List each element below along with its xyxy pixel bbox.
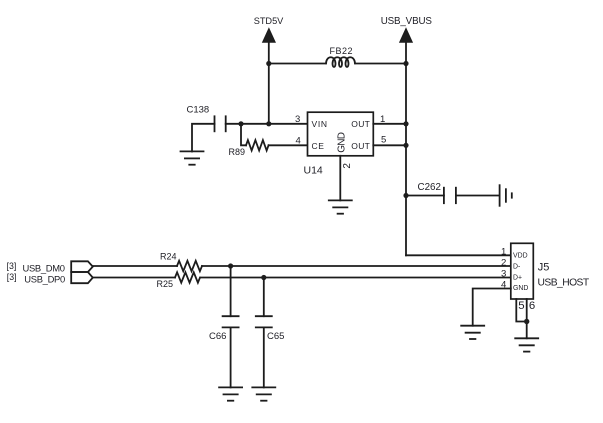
capacitor C138: [215, 116, 226, 131]
capacitor C66: [223, 316, 239, 327]
power symbol STD5V: [263, 29, 276, 64]
wire C138 left lead: [192, 124, 215, 152]
ground under C66: [219, 387, 242, 400]
wire USB_DP0 to R25: [93, 277, 175, 279]
svg-text:CE: CE: [312, 141, 325, 151]
wire C65 to ground: [263, 327, 265, 387]
junction VBUS/C262: [403, 193, 408, 198]
wire C262 to ground: [456, 195, 500, 197]
svg-text:3: 3: [295, 114, 300, 125]
off-page connector USB_DM0: [71, 261, 93, 272]
svg-text:2: 2: [501, 258, 506, 269]
wire VBUS to C262: [406, 195, 444, 197]
ground under U14: [329, 200, 352, 213]
junction pin1/VBUS: [403, 121, 408, 126]
ground right of C262 rotated: [500, 185, 512, 206]
svg-text:D-: D-: [513, 263, 520, 270]
ground under J5 pins 5-6: [515, 338, 538, 351]
junction DM0/C66: [228, 263, 233, 268]
svg-text:STD5V: STD5V: [254, 16, 284, 26]
wire J5 pin 6: [526, 299, 528, 338]
svg-text:R25: R25: [157, 279, 174, 289]
svg-text:C66: C66: [209, 331, 226, 342]
wire DM0 down to C66: [230, 266, 232, 316]
ground under J5 pin 4: [461, 326, 484, 339]
svg-text:6: 6: [529, 300, 535, 312]
wire USB_VBUS vertical rail: [405, 64, 407, 256]
op-amp U14 regulator body: [308, 112, 374, 156]
svg-text:USB_HOST: USB_HOST: [538, 278, 590, 289]
svg-text:C262: C262: [418, 182, 441, 193]
svg-text:3: 3: [501, 269, 506, 280]
junction FB22/USB_VBUS: [403, 61, 408, 66]
svg-text:1: 1: [501, 246, 506, 257]
ground under C65: [252, 387, 275, 400]
svg-text:5: 5: [381, 135, 386, 146]
svg-text:VDD: VDD: [513, 252, 528, 259]
junction DP0/C65: [261, 275, 266, 280]
wire STD5V node to FB22: [269, 63, 326, 65]
svg-text:VIN: VIN: [312, 119, 328, 129]
svg-text:J5: J5: [538, 262, 550, 274]
off-page connector USB_DP0: [71, 272, 93, 283]
wire STD5V vertical down to VIN net: [268, 64, 270, 124]
svg-text:GND: GND: [513, 285, 528, 292]
junction STD5V/FB22: [266, 61, 271, 66]
svg-text:C138: C138: [187, 105, 210, 116]
wire R24 to J5 pin 2: [202, 265, 511, 267]
svg-text:[3]: [3]: [7, 261, 17, 271]
junction C138/R89 node: [238, 121, 243, 126]
resistor R89: [241, 124, 308, 151]
wire VBUS rail to J5 VDD pin 1: [406, 254, 511, 256]
junction STD5V/VIN node: [266, 121, 271, 126]
resistor R24: [177, 261, 202, 271]
wire FB22 to USB_VBUS node: [355, 63, 406, 65]
wire C138 to VIN pin 3: [226, 123, 308, 125]
wire C66 to ground: [230, 327, 232, 387]
power symbol USB_VBUS: [400, 29, 413, 64]
junction pin5/VBUS: [403, 143, 408, 148]
svg-text:[3]: [3]: [7, 272, 17, 282]
junction pin5/pin6: [524, 319, 529, 324]
svg-text:OUT: OUT: [351, 119, 370, 129]
connector J5 body: [511, 243, 534, 299]
wire U14 pin 2 to ground: [339, 156, 341, 201]
svg-text:5: 5: [518, 300, 524, 312]
svg-text:FB22: FB22: [330, 46, 354, 56]
wire R25 to J5 pin 3: [201, 277, 511, 279]
svg-text:USB_DM0: USB_DM0: [23, 262, 65, 273]
svg-text:USB_VBUS: USB_VBUS: [381, 16, 433, 27]
svg-text:USB_DP0: USB_DP0: [24, 273, 65, 284]
wire J5 pin 5: [516, 299, 526, 322]
wire OUT pin 5 to VBUS rail: [373, 144, 406, 146]
svg-text:2: 2: [342, 163, 353, 169]
wire J5 GND pin 4: [473, 289, 511, 326]
svg-text:R89: R89: [229, 147, 246, 157]
svg-text:D+: D+: [513, 274, 522, 281]
resistor R25: [175, 272, 200, 282]
wire OUT pin 1 to VBUS rail: [373, 123, 406, 125]
wire USB_DM0 to R24: [93, 265, 177, 267]
svg-text:U14: U14: [304, 165, 323, 177]
ferrite bead FB22: [326, 57, 355, 67]
svg-text:OUT: OUT: [351, 141, 370, 151]
svg-text:C65: C65: [267, 331, 284, 342]
capacitor C262: [444, 188, 456, 204]
svg-text:R24: R24: [160, 252, 177, 262]
svg-text:4: 4: [296, 135, 301, 146]
capacitor C65: [256, 316, 272, 327]
wire DP0 down to C65: [263, 278, 265, 317]
svg-text:GND: GND: [337, 132, 348, 153]
ground under C138: [181, 151, 204, 164]
